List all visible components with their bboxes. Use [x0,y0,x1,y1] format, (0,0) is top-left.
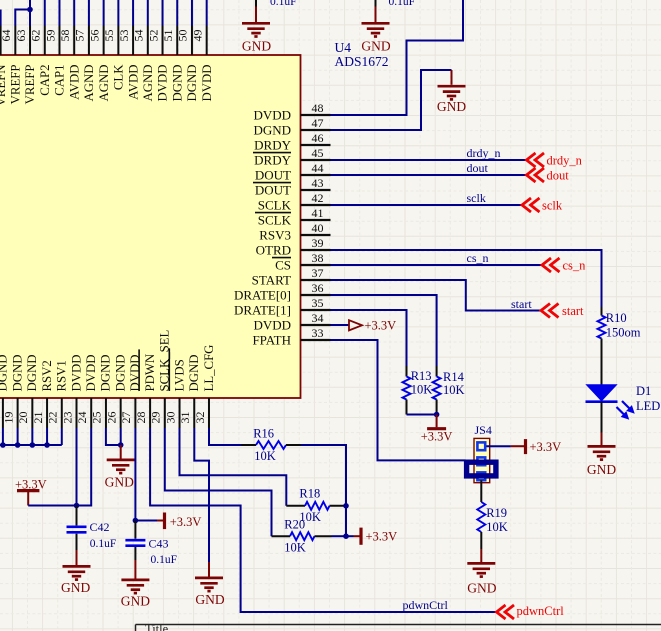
svg-text:31: 31 [178,412,192,424]
gnd stub C42 [76,550,78,565]
capacitor C? top-right lead [375,0,377,7]
svg-text:10K: 10K [254,449,276,463]
wire pin riser to bus [17,428,19,445]
junction pin27 [118,442,124,448]
pin ? LL_CFG (bottom) [208,398,210,428]
overbar PDWN [138,349,140,391]
pin 43 DOUT (right) [301,189,331,191]
gnd stub pin32 [208,562,210,577]
wire top pin up [73,0,75,26]
wire pin27 down [120,428,122,445]
svg-text:22: 22 [46,412,60,424]
wire R20 right [332,535,347,537]
svg-text:33: 33 [312,326,324,340]
junction bus [30,442,36,448]
svg-text:D1: D1 [636,384,651,398]
junction bus [44,442,50,448]
wire top pin up [176,0,178,26]
svg-text:VREFP: VREFP [23,65,37,105]
wire pin45 drdy_n [331,159,527,161]
svg-text:44: 44 [312,161,324,175]
pin 28 DVDD (bottom) [134,398,136,428]
gnd stub C43 [134,560,136,579]
wire to +3.3V C43 [135,520,157,522]
svg-text:R16: R16 [253,426,274,440]
svg-text:VREFN: VREFN [0,65,8,107]
svg-text:DRDY: DRDY [254,137,291,152]
wire dgnd bus pins 19-23 [0,444,62,446]
svg-text:+3.3V: +3.3V [366,530,398,544]
pin 38 CS (right) [301,264,331,266]
svg-text:R18: R18 [299,487,320,501]
svg-text:+3.3V: +3.3V [530,440,562,454]
wire top pin up [162,0,164,26]
ground pin32 [195,578,223,591]
svg-text:cs_n: cs_n [563,259,587,273]
svg-text:24: 24 [75,412,89,424]
svg-text:pdwnCtrl: pdwnCtrl [517,604,565,618]
wire top pin up [117,0,119,26]
svg-text:GND: GND [361,39,390,54]
junction on pin62 wire [27,7,33,13]
wire top pin up [132,0,134,26]
resistor R14 10K [436,366,438,377]
pin 26 DGND (bottom) [105,398,107,428]
svg-text:+3.3V: +3.3V [365,319,397,333]
power +3.3V right of R20 [346,535,354,537]
wire pin38 cs_n [331,264,543,266]
svg-text:30: 30 [163,412,177,424]
ground C43 [121,580,149,593]
port dout [527,168,545,182]
gnd stub D1 [601,433,603,446]
svg-text:R19: R19 [486,506,507,520]
svg-text:AGND: AGND [82,65,96,102]
wire pin33 FPATH to JS4 [331,340,466,460]
svg-text:JS4: JS4 [475,423,492,437]
svg-text:27: 27 [119,412,133,424]
svg-text:28: 28 [134,412,148,424]
svg-text:GND: GND [195,592,224,607]
pin 27 DGND (bottom) [120,398,122,428]
LED D1 [587,385,617,401]
pin 51 DVDD (top) [162,26,164,56]
svg-text:DGND: DGND [113,355,127,392]
svg-text:CS: CS [275,257,291,272]
port start [541,304,559,318]
svg-text:GND: GND [105,475,134,490]
svg-text:OTRD: OTRD [256,242,291,257]
svg-text:55: 55 [102,30,116,42]
pin 32 DGND (bottom) [193,398,195,428]
pin 22 RSV2 (bottom) [46,398,48,428]
ground pin47 [438,86,466,99]
svg-text:DVDD: DVDD [128,355,142,392]
svg-text:SCLK: SCLK [258,197,292,212]
pin 52 AGND (top) [147,26,149,56]
JS4 pin 1 square [477,442,485,450]
JS4 pin 2 square [477,457,485,465]
svg-text:sclk: sclk [467,191,486,205]
pin 63 VREFP (top) [14,26,16,56]
svg-text:AGND: AGND [97,65,111,102]
svg-text:0.1uF: 0.1uF [90,538,117,550]
svg-text:DGND: DGND [253,122,291,137]
svg-text:DGND: DGND [10,355,24,392]
pin 31 LVDS (bottom) [179,398,181,428]
wire pin32 DGND to ground [194,428,209,562]
svg-text:10K: 10K [284,540,306,554]
junction bus [15,442,21,448]
svg-text:AVDD: AVDD [126,65,140,100]
svg-text:SCLK: SCLK [258,212,292,227]
port pdwnCtrl [497,605,515,619]
gnd stub R19 [480,549,482,562]
pin 20 DGND (bottom) [17,398,19,428]
svg-text:0.1uF: 0.1uF [151,554,178,566]
svg-text:dout: dout [467,161,489,175]
wire pin44 dout [331,174,527,176]
svg-text:43: 43 [312,176,324,190]
svg-text:RSV1: RSV1 [55,360,69,391]
svg-text:LED: LED [636,399,660,413]
pin 46 DRDY (right) [301,144,331,146]
junction C43 node [133,518,139,524]
svg-text:DVDD: DVDD [200,65,214,102]
svg-text:LVDS: LVDS [172,359,186,391]
svg-text:32: 32 [193,412,207,424]
junction R18 right [343,503,349,509]
pin 35 DRATE[1] (right) [301,309,331,311]
svg-text:DGND: DGND [99,355,113,392]
wire pin63 to pin62 net [15,10,30,26]
power +3.3V near C43 [157,520,165,522]
svg-text:DOUT: DOUT [255,182,291,197]
svg-text:40: 40 [312,221,324,235]
svg-text:10K: 10K [411,383,433,397]
svg-text:PDWN: PDWN [143,354,157,392]
svg-text:53: 53 [117,30,131,42]
svg-text:FPATH: FPATH [252,332,291,347]
svg-text:AVDD: AVDD [67,65,81,100]
wire pin36 to R14 [331,295,437,366]
wire pin25 jog to pin24 node [77,428,92,506]
pin 19 DGND (bottom) [2,398,4,428]
wire pin riser to bus [46,428,48,445]
svg-text:58: 58 [58,30,72,42]
wire top pin up [103,0,105,26]
pin 48 DVDD (right) [301,114,331,116]
wire pin riser to bus [31,428,33,445]
svg-text:150om: 150om [606,325,641,339]
svg-text:R14: R14 [443,370,465,384]
svg-text:drdy_n: drdy_n [467,146,501,160]
svg-text:START: START [252,272,291,287]
svg-text:34: 34 [312,311,324,325]
svg-text:41: 41 [312,206,324,220]
svg-text:64: 64 [0,30,13,42]
svg-text:RSV3: RSV3 [259,227,291,242]
pin 55 AGND (top) [103,26,105,56]
svg-text:59: 59 [43,30,57,42]
capacitor C? top-left lead [255,0,257,7]
gnd stub top-left [255,7,257,23]
port cs_n [542,258,560,272]
JS4 shunt [467,462,496,476]
wire pin42 sclk [331,204,523,206]
pin 47 DGND (right) [301,129,331,131]
ground top-right [362,23,390,36]
svg-text:20: 20 [16,412,30,424]
pin 44 DOUT (right) [301,174,331,176]
svg-text:start: start [562,304,584,318]
svg-text:DRDY: DRDY [254,152,291,167]
pin 29 PDWN (bottom) [149,398,151,428]
svg-text:DVDD: DVDD [69,355,83,392]
wire R13 bottom to R14 bottom [407,414,437,416]
svg-text:0.1uF: 0.1uF [270,0,297,8]
gnd stub top-right [375,7,377,23]
pin 23 RSV1 (bottom) [61,398,63,428]
pin 49 DGND (top) [191,26,193,56]
svg-text:25: 25 [90,412,104,424]
pin 37 START (right) [301,279,331,281]
svg-text:start: start [511,297,532,311]
svg-text:CLK: CLK [112,64,126,90]
svg-text:48: 48 [312,101,324,115]
svg-text:VREFP: VREFP [9,65,23,105]
svg-text:19: 19 [1,412,15,424]
pin 33 FPATH (right) [301,339,331,341]
svg-text:10K: 10K [443,383,465,397]
svg-text:49: 49 [190,30,204,42]
svg-text:dout: dout [547,169,570,183]
wire top pin up [206,0,208,26]
svg-text:DGND: DGND [187,355,201,392]
pin 64 VREFN (top) [0,26,2,56]
svg-text:DOUT: DOUT [255,167,291,182]
pin 53 CLK (top) [117,26,119,56]
wire top pin up [147,0,149,26]
wire pin39 OTRD to R10 [331,250,602,307]
JS4 pin 3 square [477,472,485,480]
power +3.3V below R14 [436,415,438,428]
wire pin30 to R20 [165,428,272,536]
pin 40 RSV3 (right) [301,234,331,236]
gnd stub pin47 [451,70,453,85]
junction bus [0,442,6,448]
svg-text:GND: GND [61,580,90,595]
title block border [136,624,661,626]
pin 57 AVDD (top) [73,26,75,56]
svg-text:Title: Title [145,622,169,631]
svg-text:drdy_n: drdy_n [547,154,583,168]
wire top pin up [191,0,193,26]
pin 39 OTRD (right) [301,249,331,251]
svg-text:37: 37 [312,266,324,280]
wire pin35 to R13 [331,310,407,366]
pin ? DVDD (top) [206,26,208,56]
svg-text:62: 62 [29,30,43,42]
pin 21 DGND (bottom) [31,398,33,428]
svg-text:C42: C42 [90,520,110,534]
svg-text:RSV2: RSV2 [40,360,54,391]
port sclk [522,198,540,212]
svg-text:GND: GND [437,99,466,114]
wire pin47 DGND to ground [331,70,452,130]
wire pin48 DVDD net [331,0,464,115]
wire pin37 start [331,280,542,311]
svg-text:ADS1672: ADS1672 [335,54,389,69]
svg-text:26: 26 [104,412,118,424]
svg-text:DVDD: DVDD [253,107,291,122]
wire pin62 up [29,0,31,26]
svg-text:R20: R20 [284,518,305,532]
pin 30 SCLK_SEL (bottom) [164,398,166,428]
op-amp U4 ADS1672 body [0,55,301,398]
svg-text:pdwnCtrl: pdwnCtrl [403,598,449,612]
svg-text:GND: GND [587,462,616,477]
svg-text:50: 50 [176,30,190,42]
wire pin LL_CFG to R16 [209,428,241,445]
ground D1 [588,446,616,459]
wire pin34 +3.3V [331,324,349,326]
svg-text:DGND: DGND [25,355,39,392]
svg-text:cs_n: cs_n [467,251,489,265]
gnd stub pin27 [120,445,122,459]
svg-text:10K: 10K [486,520,508,534]
wire top pin up [88,0,90,26]
svg-text:DVDD: DVDD [84,355,98,392]
svg-text:51: 51 [161,30,175,42]
pin 45 DRDY (right) [301,159,331,161]
svg-text:23: 23 [60,412,74,424]
resistor R19 10K [480,480,482,502]
svg-text:AGND: AGND [141,65,155,102]
svg-text:36: 36 [312,281,324,295]
pin 50 DGND (top) [176,26,178,56]
svg-text:56: 56 [87,30,101,42]
svg-text:57: 57 [73,30,87,42]
svg-text:42: 42 [312,191,324,205]
pin 42 SCLK (right) [301,204,331,206]
wire top pin up [44,0,46,26]
svg-text:CAP1: CAP1 [53,65,67,96]
resistor R10 150om [601,307,603,316]
wire pin28 down [134,428,136,521]
wire pin riser to bus [61,428,63,445]
svg-text:R10: R10 [606,311,627,325]
svg-text:GND: GND [242,39,271,54]
power +3.3V arrow pin34 [349,320,362,330]
svg-text:35: 35 [312,296,324,310]
wire pin31 to R18 [180,428,287,506]
svg-text:C43: C43 [149,537,169,551]
svg-text:DGND: DGND [185,65,199,102]
capacitor C43 0.1uF [134,521,136,539]
pin 62 VREFP (top) [29,26,31,56]
resistor R13 10K [406,366,408,377]
ground C42 [63,566,91,579]
resistor R18 10K [286,505,305,507]
pin 41 SCLK (right) [301,219,331,221]
junction C42 node [74,503,80,509]
pin 58 CAP1 (top) [58,26,60,56]
ground top-left [242,23,270,36]
svg-text:+3.3V: +3.3V [170,515,202,529]
svg-text:21: 21 [31,412,45,424]
LED cathode lead [601,402,603,433]
svg-text:0.1uF: 0.1uF [389,0,416,8]
svg-text:R13: R13 [411,369,432,383]
pin 59 CAP2 (top) [44,26,46,56]
svg-text:DRATE[1]: DRATE[1] [234,302,291,317]
svg-text:29: 29 [149,412,163,424]
wire JS4 pin1 to +3.3V [487,445,511,447]
svg-text:GND: GND [467,580,496,595]
junction R20 right [343,533,349,539]
svg-text:52: 52 [146,30,160,42]
svg-text:DRATE[0]: DRATE[0] [234,287,291,302]
pin 34 DVDD (right) [301,324,331,326]
ground R19 [467,563,495,576]
svg-text:DVDD: DVDD [156,65,170,102]
pin 36 DRATE[0] (right) [301,294,331,296]
svg-text:45: 45 [312,146,324,160]
wire pin26 to pin27 [106,428,121,445]
svg-text:DVDD: DVDD [253,317,291,332]
pin 25 DVDD (bottom) [90,398,92,428]
junction R14 bottom [434,412,440,418]
wire R16 to +3.3V rail [301,445,346,536]
pin 54 AVDD (top) [132,26,134,56]
svg-text:GND: GND [121,594,150,609]
port drdy_n [527,153,545,167]
svg-text:sclk: sclk [542,199,563,213]
power +3.3V at JS4 [511,445,526,447]
svg-text:DGND: DGND [0,355,10,392]
wire pin64 stub up [0,10,2,26]
svg-text:38: 38 [312,251,324,265]
svg-text:54: 54 [132,30,146,42]
wire pin29 PDWN to pdwnCtrl [150,428,496,612]
overbar SCLK_SEL [168,348,170,391]
wire pin riser to bus [2,428,4,445]
svg-text:+3.3V: +3.3V [421,430,453,444]
LED arrows [617,401,634,418]
pin 56 AGND (top) [88,26,90,56]
svg-text:U4: U4 [335,40,352,55]
ground pin27 [107,460,135,473]
svg-text:39: 39 [312,236,324,250]
svg-text:DGND: DGND [170,65,184,102]
svg-text:63: 63 [14,30,28,42]
pin 24 DVDD (bottom) [76,398,78,428]
svg-text:CAP2: CAP2 [38,65,52,96]
svg-text:LL_CFG: LL_CFG [202,345,216,392]
svg-text:46: 46 [312,131,324,145]
svg-text:47: 47 [312,116,324,130]
capacitor C42 0.1uF [76,506,78,526]
resistor R16 10K [241,444,256,446]
wire top pin up [58,0,60,26]
resistor R20 10K [272,535,291,537]
wire pin24 down [76,428,78,506]
